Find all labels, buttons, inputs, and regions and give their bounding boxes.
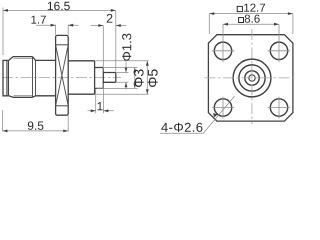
chamfer barrel to mid top (33, 57, 36, 61)
dim 16.5 extension right / pin tip (115, 10, 117, 71)
chamfer cap to barrel bottom (9, 96, 13, 98)
leader 4-phi2.6 underline (160, 96, 235, 133)
mounting hole top-right (270, 42, 287, 59)
connector left end cap (3, 60, 8, 95)
phi1.3 text (rotated) (122, 34, 131, 61)
dim 2 line tails (91, 25, 127, 27)
dim 16.5 text (48, 2, 70, 11)
mounting hole top-left (214, 42, 231, 59)
dim 12.7 ext lines (209, 14, 293, 34)
center pin (103, 73, 116, 83)
dim 1.7 line tails (36, 24, 79, 26)
hole centerline horizontal top (212, 50, 290, 52)
phi3 dim line (134, 68, 136, 89)
dim 9.5 text (28, 121, 44, 129)
phi3 section (95, 68, 104, 89)
phi5 ext lines (96, 61, 149, 94)
phi1.3 dim line segments (125, 62, 127, 90)
phi1.3 ext lines (pin top/bottom extended right) (117, 73, 129, 83)
dim 9.5 ext right (flange edge extended) (67, 116, 69, 132)
dim 2 ext line left (102, 26, 104, 72)
phi5 cylinder (68, 61, 94, 94)
mid section face (35, 60, 37, 95)
dim 12.7 square symbol (237, 6, 242, 11)
dim 16.5 extension left (2, 8, 4, 56)
phi5 dim line (146, 61, 148, 94)
dim 8.6 arrows (223, 23, 279, 26)
mounting hole bottom-right (270, 99, 287, 116)
center interface circles (233, 59, 271, 97)
phi3 ext lines (97, 68, 138, 89)
main barrel bottom edge (13, 96, 33, 98)
dim 2 arrows (98, 24, 121, 27)
dim 12.7 text (244, 4, 265, 12)
dim 1.7 ext lines above flange (56, 25, 69, 35)
flange inner line top (56, 44, 69, 46)
mid section top edge (36, 59, 56, 61)
centerline side view (2, 76, 121, 78)
cap right face (7, 60, 9, 95)
dim 16.5 line (3, 9, 116, 11)
phi3 text (rotated) (134, 69, 144, 87)
dim 16.5 arrows (3, 9, 116, 12)
barrel bottom inner highlight (14, 95, 33, 97)
barrel right face (32, 57, 34, 98)
mid section bottom edge (36, 95, 56, 97)
mounting hole bottom-left (214, 99, 231, 116)
4-phi2.6 text (161, 123, 202, 132)
flange X diagonal 1 (56, 45, 69, 106)
flange (edge view) (56, 35, 69, 115)
dim 9.5 ext left (2, 110, 4, 132)
phi5 text (rotated) (148, 69, 158, 87)
dim 8.6 line (223, 23, 279, 25)
phi1.3 arrows (125, 68, 128, 88)
flange inner line bottom (56, 105, 69, 107)
barrel top inner highlight (14, 57, 33, 59)
dim 8.6 square symbol (239, 18, 244, 23)
flange X diagonal 2 (56, 45, 69, 106)
hole centerline vertical top holes (also 8.6 ext) (223, 24, 279, 62)
phi3 arrows (133, 68, 136, 89)
front view vertical centerline (251, 29, 253, 124)
dim 9.5 line (3, 130, 69, 132)
dim 1 text (98, 102, 103, 110)
dim 1 line tails (88, 110, 114, 112)
flange front view outline with chamfered corners (208, 35, 293, 121)
dim 1.7 text (31, 16, 46, 24)
phi5 arrows (146, 61, 149, 94)
dim 1 arrows (91, 109, 109, 112)
dim 1.7 arrows (51, 24, 74, 27)
hole centerline vertical bottom holes (223, 97, 279, 119)
dim 12.7 line (209, 13, 293, 15)
dim 2 text (107, 14, 113, 23)
hole centerline horizontal bottom (212, 107, 290, 109)
dim 1 ext lines (96, 84, 104, 114)
chamfer cap to barrel top (9, 57, 13, 61)
leader arrow (213, 113, 218, 117)
dim 8.6 text (245, 15, 260, 23)
dim 12.7 arrows (209, 12, 293, 15)
cap inner groove line (6, 60, 8, 95)
main barrel top edge (13, 56, 33, 58)
front view horizontal centerline (205, 77, 297, 79)
chamfer barrel to mid bottom (33, 96, 36, 98)
dim 9.5 arrows (3, 130, 69, 133)
